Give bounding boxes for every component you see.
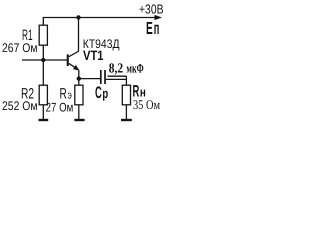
svg-text:8,2мкФ: 8,2мкФ [109, 60, 144, 75]
svg-text:27 Ом: 27 Ом [46, 100, 74, 114]
svg-text:252 Ом: 252 Ом [2, 99, 38, 113]
svg-text:267 Ом: 267 Ом [2, 41, 38, 55]
svg-text:+30В: +30В [139, 1, 164, 16]
svg-text:Еп: Еп [146, 18, 159, 38]
svg-text:VT1: VT1 [83, 48, 104, 63]
svg-text:35 Ом: 35 Ом [133, 97, 160, 112]
svg-text:Cр: Cр [95, 83, 108, 102]
